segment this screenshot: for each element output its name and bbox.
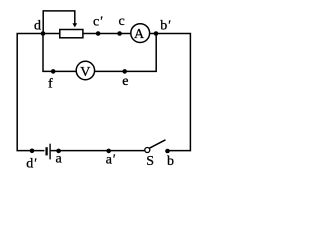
node c [117,31,122,36]
svg-text:A: A [134,27,145,42]
wire : voltmeter to node e to riser up to node b' [95,34,157,72]
rheostat slider arrowhead [72,23,77,27]
svg-text:e: e [122,74,128,89]
svg-text:a: a [56,152,63,167]
node d [41,31,46,36]
node b' [154,31,159,36]
voltmeter U2 circle [76,61,94,79]
battery B1 negative plate (short thick) [45,147,47,155]
svg-text:f: f [48,77,53,92]
node b [165,149,170,154]
node d' [30,149,35,154]
wire : switch blade [149,140,165,148]
svg-text:b': b' [160,19,171,34]
wire : battery to node a to node a' to switch [51,150,145,152]
wire : outer loop left side [17,34,44,151]
wire : ammeter to node b' to top-right corner, down right edge, to node b [150,34,191,151]
node a [56,149,61,154]
svg-text:a': a' [106,153,116,168]
node e [122,69,127,74]
wire : node d down to node f row [43,34,76,72]
wire : top row d to rheostat [43,33,60,35]
svg-text:d: d [34,19,41,34]
svg-text:c: c [119,14,125,29]
battery B1 positive plate (long thin) [49,144,51,160]
wire : rheostat slider arm [43,11,75,34]
node f [51,69,56,74]
svg-text:d': d' [26,157,37,172]
svg-text:c': c' [93,15,103,30]
svg-text:b: b [167,154,174,169]
resistor R (rheostat track) [60,30,83,38]
svg-text:S: S [146,154,154,169]
node c' [96,31,101,36]
ammeter U1 circle [131,24,150,43]
switch S pivot [145,148,150,153]
svg-text:V: V [80,65,90,80]
node a' [106,149,111,154]
wire : rheostat to node c' to node c to ammeter [83,33,131,35]
